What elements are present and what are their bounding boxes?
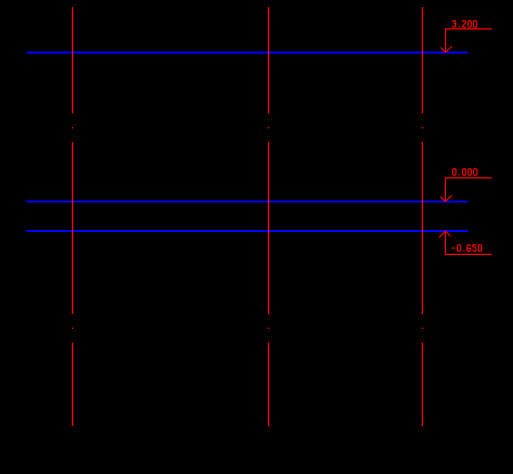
arrowhead -0.650 (up) (439, 231, 450, 238)
level line -0.650 (26, 230, 468, 232)
label text -0.650 (452, 245, 482, 252)
axis line 3 (red dash-dot centerline) (421, 7, 423, 426)
axis line 2 (red dash-dot centerline) (268, 7, 270, 426)
label text 3.200 (453, 21, 477, 28)
label text 0.000 (453, 169, 477, 176)
level line +3.200 (26, 52, 468, 54)
arrowhead 0.000 (down) (440, 195, 451, 201)
leader -0.650 (445, 231, 491, 254)
level line 0.000 (26, 201, 468, 203)
leader 3.200 (446, 29, 492, 53)
leader 0.000 (445, 178, 492, 202)
axis line 1 (red dash-dot centerline) (72, 7, 74, 426)
arrowhead 3.200 (down) (441, 46, 452, 52)
